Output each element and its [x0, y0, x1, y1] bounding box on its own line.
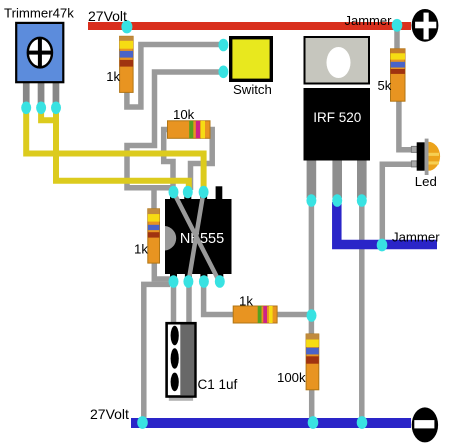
svg-text:10k: 10k	[173, 107, 195, 122]
IRF520 leg 1	[307, 160, 317, 198]
wire: 10k left lead down to pin1 dot	[164, 130, 173, 191]
node: blue jammer / LED	[377, 239, 388, 252]
NE555 body	[165, 199, 232, 274]
node: bottom rail left	[137, 416, 148, 429]
svg-text:Led: Led	[415, 174, 437, 189]
svg-text:1k: 1k	[239, 294, 253, 309]
wire: bottom -27V blue rail	[131, 418, 411, 428]
trimmer leg 3	[53, 82, 60, 104]
resistor 100k body	[306, 334, 319, 390]
svg-text:1k: 1k	[106, 69, 120, 84]
node: NE555 bottom pin1	[169, 275, 179, 288]
node: trimmer leg1	[21, 102, 31, 115]
wire: 10k right lead down to pin2 dot	[191, 130, 213, 191]
node: NE555 top pin2	[183, 186, 193, 199]
NE555 bottom pin stubs	[170, 274, 177, 282]
svg-text:Trimmer47k: Trimmer47k	[4, 6, 74, 21]
trimmer leg 1	[23, 82, 30, 104]
svg-text:27Volt: 27Volt	[90, 406, 129, 422]
capacitor C1 stripe ellipses	[171, 326, 179, 346]
wire: jammer + dot down to 5k top	[394, 27, 400, 50]
node: NE555 bottom pin2	[183, 275, 193, 288]
node: 1k/100k junction	[307, 309, 317, 322]
wire: LED lower leg to blue jammer junction	[382, 164, 412, 243]
wire: 100k bottom lead to bottom rail	[309, 388, 315, 421]
node: NE555 bottom pin4	[215, 275, 225, 288]
wire: 1k(left) bottom lead to bottom dot1	[154, 260, 170, 279]
wire: IRF leg3 down to bottom rail	[359, 200, 365, 421]
NE555 notch	[165, 226, 176, 251]
svg-text:27Volt: 27Volt	[88, 8, 127, 24]
node: trimmer leg2	[36, 102, 46, 115]
wire: 1k-top to switch-top (gray U)	[127, 45, 222, 108]
node: trimmer leg3	[51, 102, 61, 115]
wire: C1 left lead	[171, 282, 177, 327]
trimmer leg 2	[38, 82, 45, 104]
wire: yellow trimmer-left to NE555 top dot3	[26, 105, 203, 190]
node: bottom rail / 100k	[308, 416, 319, 429]
wire: NE555 bottom dot3 to 1k resistor	[204, 282, 236, 315]
resistor 10k body	[168, 121, 211, 139]
node: red rail / jammer	[392, 19, 403, 32]
wire: yellow trimmer-right to NE555 top dot2	[56, 105, 189, 190]
svg-text:Jammer: Jammer	[345, 13, 393, 28]
node: IRF leg3	[357, 194, 367, 207]
wire: 1k(left) top lead to junction	[151, 186, 157, 210]
wire: +27V red rail	[88, 22, 411, 30]
svg-text:1k: 1k	[134, 242, 148, 257]
IRF520 tab hole	[327, 47, 351, 78]
IRF520 metal tab	[305, 37, 370, 84]
LED dome	[428, 142, 440, 171]
node: red rail / 1k top	[121, 20, 132, 33]
terminal + (battery positive)	[412, 9, 439, 42]
resistor R2 1k (left) body	[148, 209, 160, 263]
node: bottom rail / IRF leg3	[357, 416, 368, 429]
trimmer 47k body	[16, 23, 63, 82]
node: IRF leg2	[332, 194, 342, 207]
wire: 5k bottom to LED upper leg	[399, 100, 412, 150]
wire: switch-bottom to NE555 top pin1	[127, 72, 220, 188]
wire: crossed jumper top-dot1 to bottom-dot4	[174, 192, 220, 282]
svg-text:Switch: Switch	[233, 82, 272, 97]
wire: yellow trimmer-mid joining right	[41, 105, 58, 120]
wire: 1k(horiz) right lead to junction	[276, 312, 312, 318]
svg-text:IRF 520: IRF 520	[313, 110, 361, 125]
svg-text:100k: 100k	[277, 370, 306, 385]
node: switch bottom	[218, 66, 228, 79]
node: NE555 top pin1	[169, 186, 179, 199]
LED body (black base)	[417, 142, 425, 170]
node: switch top	[218, 39, 228, 52]
NE555 top pin stubs	[170, 192, 177, 200]
wire: IRF leg1 down to 1k/100k junction, into 100k top	[309, 200, 315, 336]
svg-text:Jammer: Jammer	[392, 230, 440, 245]
terminal - (battery negative)	[412, 407, 438, 442]
wire: bottom dot1 down-left to bottom 27V rail	[144, 284, 170, 421]
IRF520 body	[304, 88, 371, 161]
node: NE555 top pin3	[199, 186, 209, 199]
LED upper leg stub	[411, 146, 417, 152]
NE555 top-right tab	[216, 186, 223, 200]
switch body	[231, 38, 272, 81]
resistor R1 1k (top) body	[120, 36, 134, 92]
node: NE555 bottom pin3	[199, 275, 209, 288]
resistor 1k (horizontal) body	[233, 306, 277, 323]
resistor 5k body	[391, 49, 406, 101]
capacitor C1 bottom pad	[169, 396, 193, 401]
wire: crossed jumper top-dot3 to bottom-dot2	[189, 192, 204, 282]
wire: blue jammer output from IRF leg2	[337, 202, 437, 245]
svg-text:C1 1uf: C1 1uf	[198, 377, 238, 392]
capacitor C1 body	[167, 323, 196, 396]
IRF520 leg 3	[357, 160, 367, 198]
IRF520 leg 2	[332, 160, 342, 198]
wire: C1 right lead	[186, 282, 192, 327]
trimmer screw slot	[28, 38, 52, 68]
LED lower leg stub	[411, 161, 417, 167]
LED flange	[425, 139, 429, 175]
svg-text:5k: 5k	[378, 78, 392, 93]
node: IRF leg1	[306, 194, 316, 207]
